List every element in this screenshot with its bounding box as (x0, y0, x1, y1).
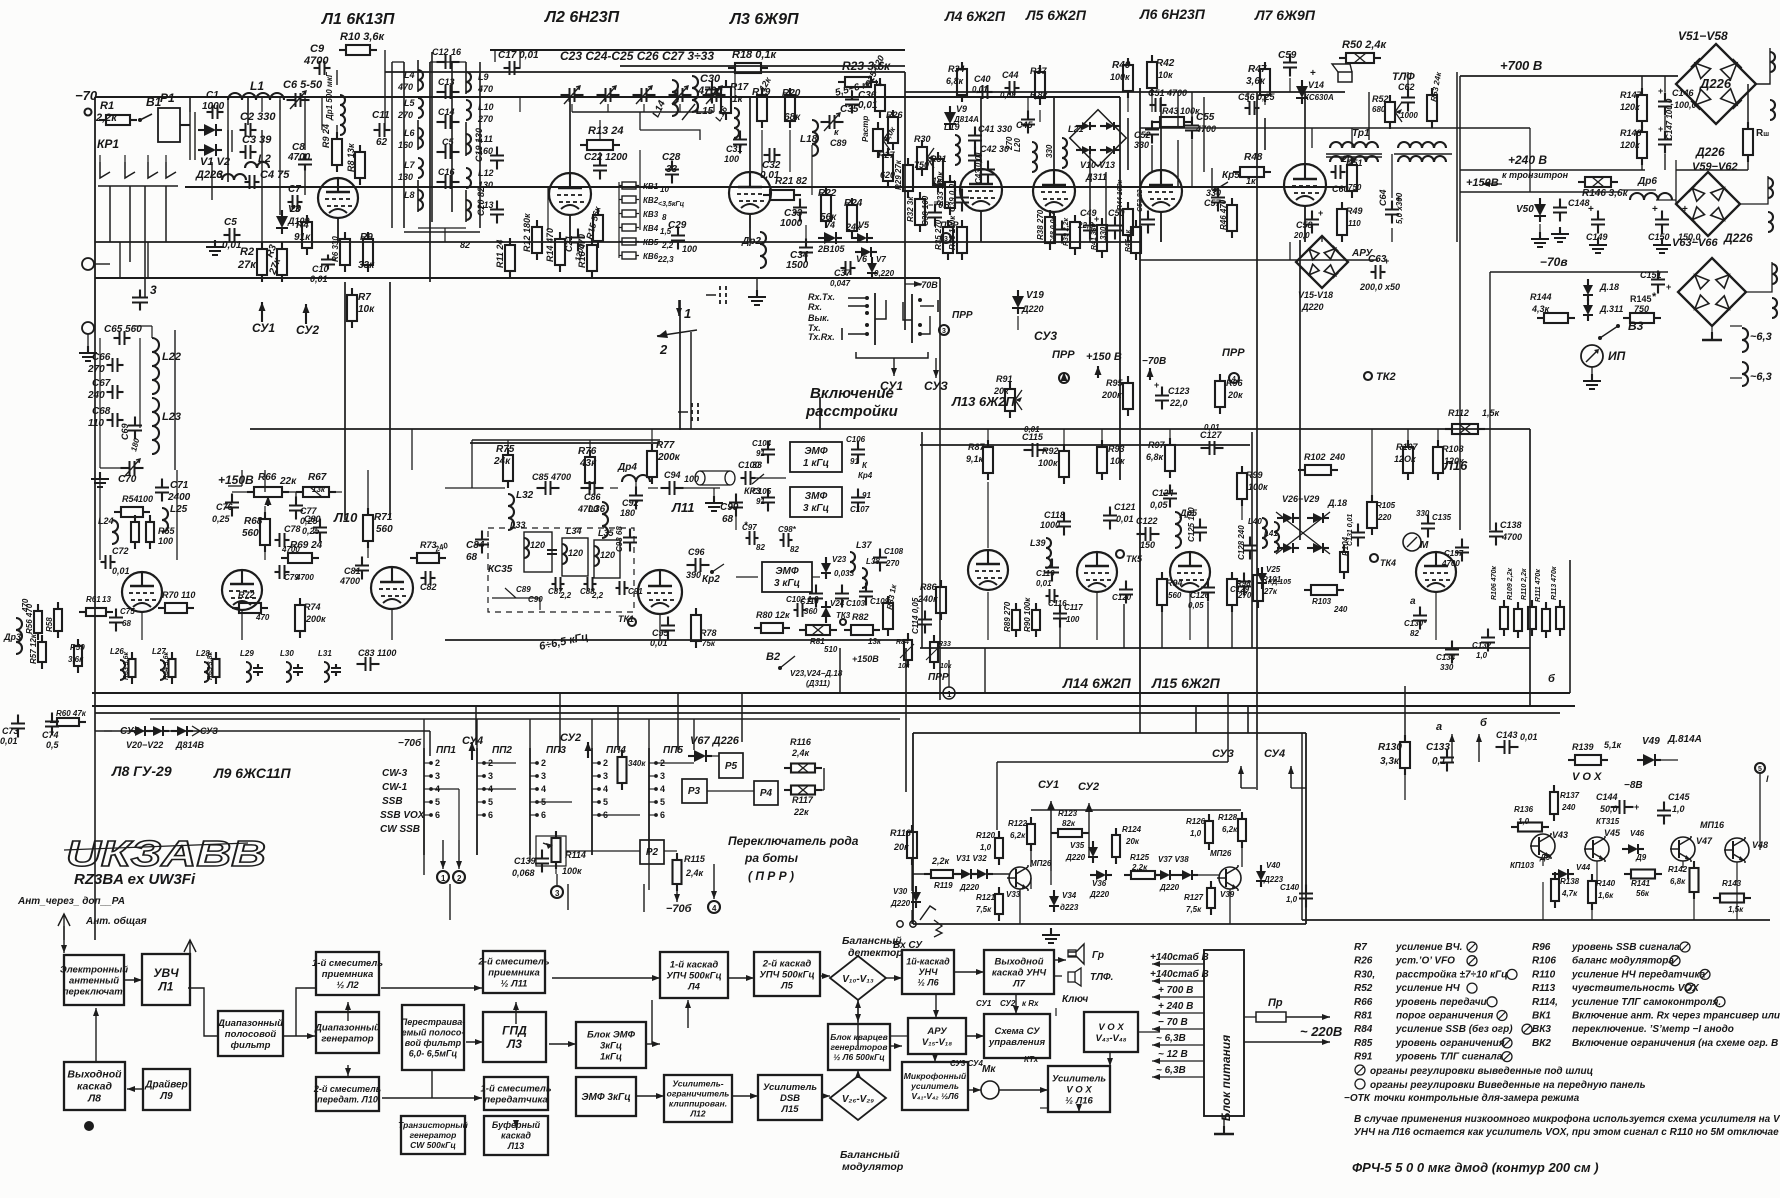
inductor Dr1 500mkg (325, 71, 345, 135)
diode V25 KD105 (1257, 565, 1291, 589)
L6 column wires (1090, 97, 1204, 242)
varcap C6 5-50 (283, 79, 323, 109)
svg-text:56к: 56к (1636, 889, 1650, 898)
svg-text:R111 470к: R111 470к (1535, 569, 1542, 602)
label KC35 (488, 564, 513, 575)
svg-text:С75: С75 (120, 607, 135, 616)
capacitor C122 150 (1136, 516, 1160, 550)
switch PP4 (592, 745, 626, 855)
svg-text:R136: R136 (1514, 805, 1534, 814)
svg-text:½ Л11: ½ Л11 (501, 978, 528, 989)
svg-text:0,5: 0,5 (46, 740, 60, 750)
terminal ant (79, 322, 97, 361)
speaker Gr (1068, 944, 1104, 964)
svg-text:ПП2: ПП2 (492, 745, 512, 756)
capacitor C43 0,01 (974, 151, 995, 184)
capacitor C81 4700 (339, 557, 369, 587)
inductor Dr3 (3, 598, 30, 654)
svg-text:91: 91 (862, 491, 871, 500)
label -70V mid (1142, 356, 1166, 380)
varcap C35 (821, 104, 859, 148)
svg-text:С37: С37 (834, 268, 852, 278)
label TK4 (1370, 554, 1396, 568)
wire bus y187 (185, 186, 1345, 188)
svg-text:ПРР: ПРР (940, 220, 959, 230)
wire bus y730 (95, 730, 430, 732)
wire psu in (1244, 1017, 1256, 1042)
svg-text:Др1 500 мкГ: Др1 500 мкГ (325, 71, 334, 121)
svg-text:ра боты: ра боты (744, 851, 799, 865)
svg-text:С67: С67 (92, 378, 111, 389)
svg-text:Др6: Др6 (1637, 176, 1657, 187)
svg-text:6,8к: 6,8к (1670, 877, 1686, 886)
svg-text:С117: С117 (1064, 603, 1083, 612)
tank L31 (318, 649, 341, 682)
svg-text:6: 6 (488, 810, 493, 820)
svg-text:СУ1: СУ1 (1038, 779, 1059, 791)
tank L34 (562, 526, 588, 576)
pot R52 680 (1372, 94, 1402, 129)
label C23-C27 (560, 49, 714, 63)
svg-text:1 кГц: 1 кГц (803, 458, 829, 469)
resistor 340k (618, 750, 647, 790)
svg-text:330: 330 (1045, 144, 1054, 158)
svg-text:1,5к: 1,5к (1728, 905, 1744, 914)
svg-text:R115: R115 (684, 854, 706, 864)
varcap row (561, 86, 726, 104)
antenna label 1 (17, 896, 125, 907)
inductor L38 (862, 557, 880, 588)
resistor R27 620 (878, 148, 896, 188)
svg-text:передат. Л10: передат. Л10 (317, 1094, 378, 1104)
svg-text:R60 47к: R60 47к (56, 709, 87, 718)
capacitor C49 22,0 (1077, 208, 1099, 240)
svg-text:С22 1200: С22 1200 (584, 152, 628, 163)
svg-text:ПРР: ПРР (1052, 349, 1075, 361)
svg-text:уровень передачи: уровень передачи (1395, 997, 1487, 1008)
svg-text:6,8к: 6,8к (1030, 90, 1048, 100)
svg-text:R14 470: R14 470 (545, 228, 555, 262)
block vyhod kaskad L8 (64, 1062, 125, 1110)
kp1 vertical drops (88, 112, 166, 242)
svg-text:С35: С35 (840, 104, 859, 115)
svg-text:R64 3,6к: R64 3,6к (163, 651, 170, 680)
resistor R137 240 (1550, 785, 1580, 821)
svg-text:2,2: 2,2 (559, 591, 572, 600)
wire su bus y429 (250, 428, 1530, 430)
svg-text:4,7к: 4,7к (1561, 889, 1578, 898)
capacitor C72 0,01 (101, 546, 130, 576)
switch B1 (138, 95, 162, 122)
resistor R139 5,1k (1568, 740, 1622, 765)
resistor R2 27k (237, 242, 267, 282)
svg-text:L37: L37 (856, 540, 873, 550)
svg-text:переключат.: переключат. (63, 986, 126, 997)
svg-text:С51 4700: С51 4700 (1148, 88, 1187, 98)
svg-text:а: а (1436, 721, 1442, 733)
capacitor C128 240 (1237, 525, 1257, 560)
resistor R70 110 (158, 590, 195, 613)
svg-text:В3: В3 (1628, 319, 1644, 333)
resistor R127 7,5k (1184, 881, 1215, 915)
svg-text:−70в: −70в (1540, 255, 1568, 269)
svg-text:340к: 340к (628, 759, 646, 768)
wire mid horiz y445 (470, 443, 1250, 445)
label L8 GU-29 (111, 763, 172, 779)
svg-text:100: 100 (724, 154, 739, 164)
svg-text:330: 330 (1416, 509, 1430, 518)
meter M (1403, 533, 1429, 551)
svg-text:Транзисторный: Транзисторный (398, 1120, 469, 1130)
relay P4 (754, 781, 778, 805)
resistor R105 220 (1367, 495, 1396, 535)
svg-text:4,3к: 4,3к (1531, 304, 1550, 314)
inductor Dr2 (741, 232, 766, 268)
svg-text:6,2к: 6,2к (1010, 831, 1026, 840)
svg-text:240: 240 (1561, 803, 1576, 812)
transistor V48 (1724, 837, 1768, 863)
svg-text:33к: 33к (358, 260, 375, 271)
svg-text:С31: С31 (726, 144, 743, 154)
svg-text:2: 2 (457, 874, 462, 883)
svg-text:2,2к: 2,2к (95, 112, 118, 124)
svg-text:560: 560 (1168, 591, 1182, 600)
resistor R104 (1340, 536, 1350, 579)
diode V2 (198, 144, 222, 156)
svg-text:5: 5 (1758, 766, 1762, 773)
svg-text:С55: С55 (1196, 112, 1215, 123)
svg-text:R142: R142 (1668, 865, 1688, 874)
svg-text:Тх.Rx.: Тх.Rx. (808, 332, 835, 342)
svg-text:Л6 6Н23П: Л6 6Н23П (1139, 6, 1206, 22)
svg-text:R44 100к: R44 100к (1117, 180, 1124, 210)
svg-text:R124: R124 (1122, 825, 1142, 834)
svg-text:2,2к: 2,2к (1131, 863, 1148, 872)
label -70B prr (928, 200, 959, 243)
tube L13 (968, 550, 1008, 590)
svg-text:Л1: Л1 (158, 979, 174, 993)
capacitor C121 0,01 (1103, 502, 1136, 530)
svg-text:ТК5: ТК5 (1126, 554, 1143, 564)
svg-text:V36: V36 (1092, 879, 1107, 888)
svg-text:С102 1,0: С102 1,0 (786, 595, 819, 604)
capacitor C99 68 (720, 494, 743, 526)
svg-text:Д814В: Д814В (175, 740, 205, 750)
tube label L5 (1025, 7, 1087, 23)
heater coil 6,3a (1730, 326, 1772, 352)
resistor R145 750 (1623, 291, 1661, 323)
pot R84 10k (896, 633, 914, 670)
svg-text:27к: 27к (237, 259, 257, 271)
svg-text:68: 68 (122, 619, 131, 628)
wire L7 cluster (1265, 78, 1392, 242)
label -70 (75, 88, 98, 103)
svg-text:68: 68 (466, 552, 478, 563)
diode V50 (1516, 198, 1549, 247)
resistor R108 120k (1433, 440, 1464, 480)
svg-text:~ 220В: ~ 220В (1300, 1024, 1342, 1039)
svg-text:R56 470: R56 470 (25, 603, 34, 634)
crystals KV1-KV6 (619, 182, 659, 261)
left mid wires (212, 130, 305, 242)
resistor R10 3,6k (339, 31, 386, 55)
svg-text:С89: С89 (830, 138, 847, 148)
svg-text:82: 82 (460, 240, 470, 250)
svg-text:к Rх: к Rх (1022, 999, 1039, 1008)
svg-text:1,0: 1,0 (980, 843, 992, 852)
resistor R72 470 (232, 590, 270, 622)
svg-text:4700: 4700 (1501, 532, 1522, 542)
capacitor C115 0,01 (1022, 425, 1047, 457)
svg-text:68к: 68к (784, 112, 801, 123)
wire anode bus y66 (620, 65, 905, 67)
capacitor C96 390 (686, 547, 710, 580)
svg-text:1000: 1000 (1400, 111, 1418, 120)
wire anode bus L2-L7 (385, 71, 905, 73)
resistor R54 100 (114, 494, 153, 517)
svg-text:SSB VOX: SSB VOX (380, 810, 426, 821)
svg-text:− 70 В: − 70 В (1158, 1017, 1188, 1028)
svg-text:R2: R2 (240, 246, 254, 258)
svg-text:UКЗАВВ: UКЗАВВ (66, 833, 266, 874)
capacitor C73 0,01 (0, 715, 25, 747)
svg-text:С92: С92 (622, 498, 639, 508)
fuse Pr (1244, 997, 1330, 1045)
resistor R56 470 (25, 603, 42, 640)
resistor R99 100k (1237, 466, 1268, 506)
wire coil filter (91, 326, 175, 487)
svg-text:9,1к: 9,1к (966, 454, 984, 464)
svg-text:R106: R106 (1532, 956, 1556, 967)
resistor R118 20k (890, 825, 917, 865)
svg-text:генераторов: генераторов (831, 1042, 888, 1052)
svg-text:4700: 4700 (697, 85, 723, 97)
svg-text:−ОТК: −ОТК (1344, 1093, 1371, 1104)
svg-text:82: 82 (756, 543, 765, 552)
resistor R103 240 (1304, 585, 1348, 614)
svg-text:R99: R99 (1246, 470, 1263, 480)
capacitor C109 (859, 583, 890, 607)
phone jack (893, 906, 942, 951)
svg-text:С119: С119 (1036, 569, 1055, 578)
svg-text:V15-V18: V15-V18 (1298, 290, 1333, 300)
svg-text:СУ2: СУ2 (296, 323, 319, 337)
svg-text:Р1: Р1 (160, 91, 175, 105)
diamond balans det (830, 935, 903, 1000)
block kaskad2 UPCh (754, 952, 820, 996)
svg-text:органы регулировки выведенны: органы регулировки выведенные под шлиц (1370, 1066, 1593, 1077)
svg-text:Включение: Включение (810, 385, 894, 402)
svg-text:V31 V32: V31 V32 (956, 854, 987, 863)
svg-text:+ 700 В: + 700 В (1158, 985, 1193, 996)
inductor L24 (98, 516, 118, 544)
svg-text:КР1: КР1 (97, 137, 119, 151)
block ant switch (60, 955, 128, 1005)
svg-text:7,5к: 7,5к (1186, 905, 1202, 914)
resistor R122 6,2k (1008, 817, 1035, 851)
capacitor C1 1000 (202, 90, 225, 119)
svg-text:100: 100 (138, 494, 153, 504)
switch mode labels (808, 292, 835, 342)
svg-text:С29: С29 (668, 220, 687, 231)
svg-text:R94: R94 (1166, 578, 1183, 588)
svg-text:62: 62 (376, 137, 388, 148)
resistor R9 24 (321, 124, 342, 172)
label VOX -8B (1572, 771, 1643, 791)
capacitor C8 4700 (287, 142, 312, 171)
svg-text:Д220: Д220 (1089, 890, 1110, 899)
resistor R18 0,1k (728, 49, 778, 73)
svg-text:V23,V24−Д.18: V23,V24−Д.18 (790, 669, 843, 678)
arrows mixer2 (513, 975, 660, 1128)
svg-text:R9: R9 (360, 232, 373, 243)
svg-text:Л10: Л10 (333, 510, 358, 525)
resistor R48 1k (1233, 152, 1271, 186)
resistor R31 1k (930, 152, 947, 192)
svg-text:R125: R125 (1130, 853, 1150, 862)
svg-text:уровень ТЛГ сигнала: уровень ТЛГ сигнала (1395, 1052, 1503, 1063)
resistor R125 2,2k (1124, 853, 1162, 879)
svg-text:С17 0,01: С17 0,01 (498, 50, 539, 61)
svg-text:R78: R78 (700, 628, 717, 638)
svg-text:R20: R20 (782, 88, 801, 99)
svg-text:L22: L22 (162, 351, 181, 363)
svg-text:С126: С126 (1190, 591, 1210, 600)
svg-text:R7: R7 (1354, 942, 1367, 953)
capacitor C52 330 (1134, 121, 1159, 151)
capacitor C76 0,25 (212, 494, 239, 525)
svg-text:управления: управления (988, 1037, 1046, 1048)
svg-text:V43: V43 (1552, 830, 1568, 840)
resistor R1 2,2k (95, 100, 137, 125)
svg-text:V26−V29: V26−V29 (1282, 494, 1319, 504)
svg-text:22,3: 22,3 (657, 255, 674, 264)
wire x680 vertical (680, 300, 820, 430)
resistor R60 47k (50, 709, 87, 726)
wire top connectors (95, 92, 1305, 172)
svg-text:КР3: КР3 (744, 486, 761, 496)
svg-text:передатчика: передатчика (484, 1094, 547, 1105)
svg-text:Д220: Д220 (1301, 302, 1324, 312)
resistor R23 3,6k (838, 59, 891, 87)
svg-text:R34: R34 (948, 64, 965, 74)
resistor R69 24 (281, 540, 323, 563)
svg-text:R52: R52 (1372, 94, 1389, 104)
svg-text:R66: R66 (1354, 997, 1373, 1008)
svg-text:R112: R112 (1448, 408, 1469, 418)
svg-text:(Д311): (Д311) (806, 679, 830, 688)
resistor R82 13k (844, 612, 882, 646)
svg-text:R92: R92 (1042, 446, 1059, 456)
svg-text:200к: 200к (657, 452, 681, 463)
svg-text:10к: 10к (358, 304, 375, 315)
svg-text:антенный: антенный (69, 975, 119, 986)
svg-text:470: 470 (397, 82, 413, 92)
svg-text:R119: R119 (934, 881, 953, 890)
tube L6 6N23P (1140, 170, 1182, 212)
svg-text:фильтр: фильтр (231, 1040, 271, 1051)
svg-text:Р3: Р3 (688, 786, 701, 797)
resistor R136 1,0 (1511, 805, 1549, 832)
mid area verticals (228, 429, 412, 544)
inductor L23 (152, 398, 181, 454)
svg-text:Л12: Л12 (689, 1108, 706, 1118)
resistor R147 120k (1620, 88, 1647, 128)
block perestr filter (401, 1005, 465, 1070)
svg-text:С41 330: С41 330 (978, 124, 1012, 134)
svg-text:~6,3: ~6,3 (1750, 371, 1772, 383)
svg-text:б: б (1480, 717, 1488, 729)
svg-text:6: 6 (541, 810, 546, 820)
tube label L4 (944, 8, 1006, 24)
svg-text:2-й каскад: 2-й каскад (762, 958, 812, 969)
l14 cluster verticals (985, 602, 1232, 693)
svg-text:V₁₅-V₁₈: V₁₅-V₁₈ (922, 1037, 952, 1048)
switch arrow L15 (682, 104, 695, 120)
svg-text:С5: С5 (224, 217, 237, 228)
svg-text:приемника: приемника (322, 969, 373, 980)
svg-text:С71: С71 (170, 480, 189, 491)
svg-text:( П Р Р ): ( П Р Р ) (748, 869, 794, 883)
svg-text:R110 2,2к: R110 2,2к (1521, 568, 1528, 600)
svg-text:+: + (1318, 208, 1323, 218)
capacitor C95 0,01 (650, 617, 675, 649)
ground switch (748, 278, 766, 305)
block smesitel2 pr (478, 951, 550, 993)
inductor L39 (1030, 538, 1051, 568)
svg-text:генератор: генератор (410, 1130, 457, 1140)
label SU4 tr (1264, 748, 1306, 788)
svg-text:R103: R103 (1312, 597, 1332, 606)
svg-text:R57 12к: R57 12к (29, 633, 38, 664)
diamond balans mod (830, 1076, 904, 1173)
svg-text:1500: 1500 (786, 260, 809, 271)
diode V19 D220 (1012, 290, 1044, 314)
capacitor C29 100 (668, 220, 697, 254)
svg-text:R95: R95 (1106, 378, 1124, 388)
svg-text:д223: д223 (1060, 903, 1079, 912)
diode V14 KS630A (1296, 68, 1334, 104)
wire +700 (1460, 76, 1678, 242)
svg-text:С59: С59 (1278, 50, 1297, 61)
capacitor C9 4700 (303, 43, 331, 75)
inductor L15 (692, 76, 714, 117)
svg-text:R71: R71 (374, 512, 393, 523)
resistor R102 240 (1298, 452, 1345, 475)
svg-text:L39: L39 (1030, 538, 1046, 548)
svg-text:120к: 120к (1444, 456, 1464, 466)
label L14 6Zh2P (1062, 675, 1132, 691)
resistor R17 1k (721, 80, 749, 120)
svg-text:V О X: V О X (1572, 771, 1602, 783)
wire x1300 vertical (1299, 240, 1301, 540)
svg-text:L8: L8 (404, 190, 415, 200)
capacitor C45 (1016, 111, 1035, 134)
svg-text:120: 120 (530, 540, 545, 550)
tank L33 (510, 520, 557, 572)
svg-text:V33: V33 (1006, 890, 1021, 899)
svg-text:УНЧ: УНЧ (919, 967, 939, 977)
tube L14t (1170, 552, 1210, 592)
capacitor C2 330 (240, 111, 277, 137)
svg-text:КТ315: КТ315 (1596, 817, 1620, 826)
resistor cluster R106-R111 (1491, 566, 1564, 638)
svg-text:+150 В: +150 В (1086, 351, 1122, 363)
svg-text:R128: R128 (1218, 813, 1238, 822)
block usil ogr (664, 1075, 732, 1122)
svg-text:Д220: Д220 (1021, 304, 1044, 314)
svg-text:L29: L29 (240, 649, 254, 658)
